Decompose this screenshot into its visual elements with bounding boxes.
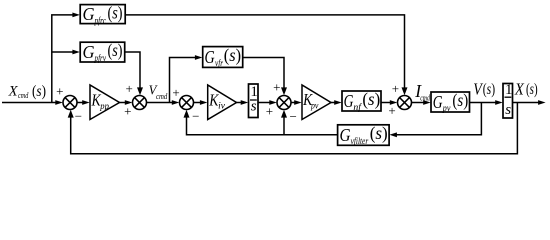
svg-text:+: + bbox=[124, 103, 131, 118]
wire X feedback down and across bottom bbox=[71, 103, 518, 154]
svg-text:G: G bbox=[83, 4, 95, 24]
wire integrator to sum4 bbox=[258, 102, 271, 104]
wire K_iv to integrator bbox=[237, 102, 243, 104]
svg-text:(s): (s) bbox=[526, 81, 538, 98]
svg-text:(s): (s) bbox=[32, 83, 46, 100]
wire branch up to sum4 bottom bbox=[283, 116, 285, 135]
arrowhead into sum5 bbox=[390, 100, 398, 105]
arrowhead sum5 top from G_pfrc bbox=[402, 87, 408, 95]
wire K_pv to G_nf bbox=[331, 102, 336, 104]
arrowhead into G_nf bbox=[334, 100, 342, 105]
svg-text:G: G bbox=[205, 47, 215, 67]
block integrator 1/s second bbox=[503, 84, 513, 119]
svg-text:pfrv: pfrv bbox=[94, 53, 106, 63]
svg-text:+: + bbox=[56, 84, 63, 99]
arrowhead sum2 top from G_pfrv bbox=[137, 87, 143, 95]
svg-text:s: s bbox=[505, 102, 511, 118]
arrowhead sum4 top from G_vfr bbox=[281, 87, 287, 95]
transistor K_pp triangle bbox=[90, 85, 120, 120]
arrowhead into G_vfilter bbox=[389, 132, 397, 137]
svg-text:+: + bbox=[266, 104, 273, 119]
wire sum1 to K_pp bbox=[77, 102, 84, 104]
wire output X(s) bbox=[513, 102, 540, 104]
arrowhead into G_vfr bbox=[195, 55, 203, 60]
arrowhead into G_pfrv bbox=[72, 50, 80, 55]
arrowhead sum4 bottom from feedback bbox=[281, 110, 287, 118]
svg-text:(s): (s) bbox=[224, 45, 241, 65]
svg-text:(s): (s) bbox=[370, 123, 388, 143]
block integrator 1/s first bbox=[249, 84, 259, 118]
svg-text:pfrc: pfrc bbox=[94, 15, 106, 25]
block G_pfrc bbox=[80, 5, 125, 24]
wire to G_pfrv bbox=[52, 51, 74, 53]
wire G_pfrv output down to sum2 top bbox=[125, 52, 140, 88]
node sum1 bbox=[63, 96, 77, 110]
block G_vfr bbox=[203, 47, 243, 68]
arrowhead output X(s) bbox=[538, 100, 546, 105]
block G_nf bbox=[342, 91, 381, 111]
arrowhead into G_pfrc bbox=[72, 13, 80, 18]
arrowhead into sum2 bbox=[125, 100, 133, 105]
svg-text:pv: pv bbox=[310, 100, 318, 110]
svg-text:iv: iv bbox=[218, 100, 225, 110]
svg-text:−: − bbox=[75, 108, 82, 123]
arrowhead into sum3 bbox=[172, 100, 180, 105]
node sum2 bbox=[133, 96, 147, 110]
wire sum5 to G_pv bbox=[411, 102, 425, 104]
arrowhead into K_iv bbox=[200, 100, 208, 105]
svg-text:+: + bbox=[172, 85, 179, 100]
wire G_pv to integrator 2 bbox=[470, 102, 498, 104]
svg-text:G: G bbox=[433, 92, 443, 112]
svg-text:pp: pp bbox=[99, 101, 109, 111]
arrowhead into integrator 1 bbox=[241, 100, 249, 105]
transistor K_iv triangle bbox=[208, 85, 237, 120]
arrowhead into integrator 2 bbox=[495, 100, 503, 105]
wire V branch down to G_vfilter bbox=[395, 103, 481, 135]
node sum4 bbox=[277, 96, 291, 110]
svg-text:X: X bbox=[514, 79, 525, 98]
svg-text:cmd: cmd bbox=[18, 90, 29, 100]
arrowhead into K_pp bbox=[82, 100, 90, 105]
node sum5 bbox=[398, 96, 412, 110]
arrowhead into K_pv bbox=[294, 100, 302, 105]
block G_vfilter bbox=[338, 125, 390, 146]
svg-text:+: + bbox=[273, 80, 280, 95]
svg-text:−: − bbox=[192, 109, 199, 124]
arrowhead into sum1 bbox=[55, 100, 63, 105]
svg-text:(s): (s) bbox=[483, 81, 495, 98]
wire V_cmd branch up to G_vfr bbox=[170, 58, 197, 103]
wire sum3 to K_iv bbox=[193, 102, 201, 104]
arrowhead into sum4 bbox=[269, 100, 277, 105]
wire K_pp to sum2 bbox=[120, 102, 127, 104]
wire sum2 to sum3 bbox=[146, 102, 173, 104]
svg-text:+: + bbox=[392, 81, 399, 96]
block G_pfrv bbox=[80, 42, 125, 62]
block G_pv bbox=[431, 92, 470, 112]
svg-text:G: G bbox=[83, 42, 95, 62]
svg-text:G: G bbox=[340, 125, 351, 145]
wire G_vfilter output left to sum3 bottom bbox=[187, 116, 338, 135]
svg-text:+: + bbox=[388, 103, 395, 118]
wire G_nf to sum5 bbox=[381, 102, 391, 104]
arrowhead sum1 bottom from X feedback bbox=[68, 110, 74, 118]
svg-text:(s): (s) bbox=[108, 40, 123, 60]
wire branch up to feedforward blocks bbox=[52, 15, 74, 103]
svg-text:+: + bbox=[126, 81, 133, 96]
svg-text:cmd: cmd bbox=[156, 91, 168, 101]
svg-text:s: s bbox=[251, 99, 257, 115]
svg-text:cmd: cmd bbox=[420, 92, 430, 102]
svg-text:pv: pv bbox=[442, 103, 450, 113]
svg-text:vfilter: vfilter bbox=[351, 136, 369, 146]
svg-text:vfr: vfr bbox=[215, 58, 223, 68]
arrowhead into G_pv bbox=[423, 100, 431, 105]
node sum3 bbox=[180, 96, 194, 110]
svg-text:−: − bbox=[290, 109, 297, 124]
wire sum4 to K_pv bbox=[291, 102, 296, 104]
wire G_vfr output down to sum4 top bbox=[243, 58, 284, 89]
arrowhead sum3 bottom from feedback bbox=[184, 110, 190, 118]
svg-text:G: G bbox=[344, 91, 354, 111]
svg-text:(s): (s) bbox=[362, 89, 380, 109]
transistor K_pv triangle bbox=[302, 85, 331, 120]
svg-text:(s): (s) bbox=[108, 2, 123, 22]
wire input X_cmd bbox=[2, 102, 56, 104]
svg-text:1: 1 bbox=[505, 82, 513, 98]
svg-text:(s): (s) bbox=[452, 90, 468, 110]
wire G_pfrc output to sum5 top bbox=[125, 15, 404, 88]
